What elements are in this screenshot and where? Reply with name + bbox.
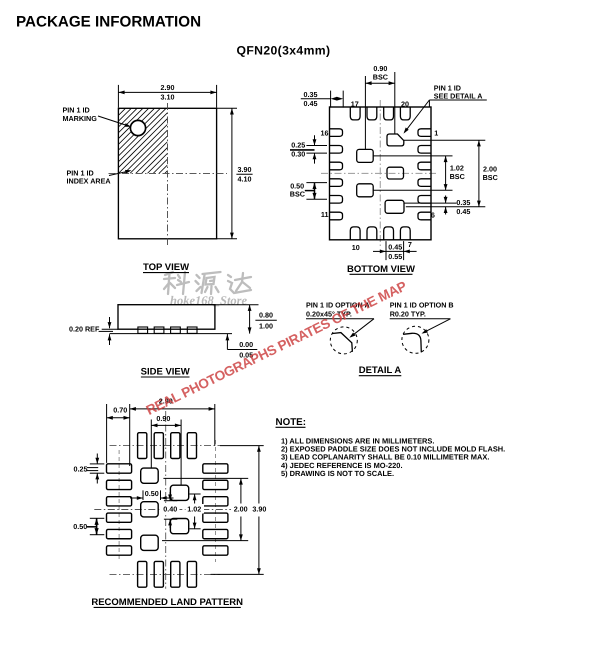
svg-text:BSC: BSC bbox=[373, 73, 388, 82]
svg-text:BOTTOM VIEW: BOTTOM VIEW bbox=[347, 264, 415, 275]
svg-text:11: 11 bbox=[321, 210, 329, 219]
svg-text:PACKAGE INFORMATION: PACKAGE INFORMATION bbox=[16, 14, 201, 31]
svg-text:1.02: 1.02 bbox=[187, 505, 201, 514]
svg-text:4.10: 4.10 bbox=[238, 174, 252, 183]
svg-text:1: 1 bbox=[434, 128, 438, 137]
svg-text:NOTE:: NOTE: bbox=[276, 417, 306, 428]
svg-text:0.00: 0.00 bbox=[239, 340, 253, 349]
svg-text:0.50: 0.50 bbox=[145, 489, 159, 498]
svg-text:0.20 REF: 0.20 REF bbox=[69, 324, 100, 333]
svg-text:0.50: 0.50 bbox=[73, 522, 87, 531]
svg-text:SIDE VIEW: SIDE VIEW bbox=[141, 367, 190, 378]
svg-text:DETAIL A: DETAIL A bbox=[359, 365, 402, 376]
svg-text:2.90: 2.90 bbox=[161, 83, 175, 92]
svg-text:6: 6 bbox=[431, 210, 435, 219]
svg-text:0.45: 0.45 bbox=[388, 243, 402, 252]
svg-text:R0.20 TYP.: R0.20 TYP. bbox=[390, 309, 426, 318]
svg-text:2.00: 2.00 bbox=[234, 505, 248, 514]
svg-text:0.45: 0.45 bbox=[456, 207, 470, 216]
svg-text:0.35: 0.35 bbox=[304, 90, 318, 99]
svg-text:3.90: 3.90 bbox=[252, 505, 266, 514]
svg-text:hoke168_Store: hoke168_Store bbox=[170, 294, 248, 308]
svg-text:INDEX AREA: INDEX AREA bbox=[67, 177, 111, 186]
svg-text:0.90: 0.90 bbox=[156, 414, 170, 423]
svg-text:RECOMMENDED LAND PATTERN: RECOMMENDED LAND PATTERN bbox=[91, 597, 243, 608]
svg-text:1.00: 1.00 bbox=[259, 322, 273, 331]
svg-text:MARKING: MARKING bbox=[63, 114, 98, 123]
svg-text:0.40: 0.40 bbox=[163, 505, 177, 514]
svg-text:3.90: 3.90 bbox=[238, 165, 252, 174]
svg-text:3.10: 3.10 bbox=[161, 93, 175, 102]
svg-text:0.25: 0.25 bbox=[74, 464, 88, 473]
svg-text:0.25: 0.25 bbox=[291, 140, 305, 149]
svg-text:5) DRAWING IS NOT TO SCALE.: 5) DRAWING IS NOT TO SCALE. bbox=[281, 469, 394, 478]
svg-text:10: 10 bbox=[352, 243, 360, 252]
svg-text:16: 16 bbox=[321, 128, 329, 137]
svg-text:TOP VIEW: TOP VIEW bbox=[143, 262, 189, 273]
svg-text:0.70: 0.70 bbox=[113, 406, 127, 415]
svg-text:SEE DETAIL A: SEE DETAIL A bbox=[434, 92, 483, 101]
svg-text:17: 17 bbox=[351, 99, 359, 108]
svg-text:BSC: BSC bbox=[450, 172, 465, 181]
svg-text:0.80: 0.80 bbox=[259, 311, 273, 320]
svg-text:0.45: 0.45 bbox=[304, 99, 318, 108]
svg-text:QFN20(3x4mm): QFN20(3x4mm) bbox=[237, 44, 331, 58]
svg-text:BSC: BSC bbox=[483, 173, 498, 182]
svg-text:7: 7 bbox=[408, 240, 412, 249]
svg-text:0.35: 0.35 bbox=[456, 198, 470, 207]
svg-text:BSC: BSC bbox=[290, 189, 305, 198]
svg-text:0.55: 0.55 bbox=[388, 252, 402, 261]
svg-text:20: 20 bbox=[401, 99, 409, 108]
svg-text:PIN 1 ID OPTION B: PIN 1 ID OPTION B bbox=[390, 300, 454, 309]
